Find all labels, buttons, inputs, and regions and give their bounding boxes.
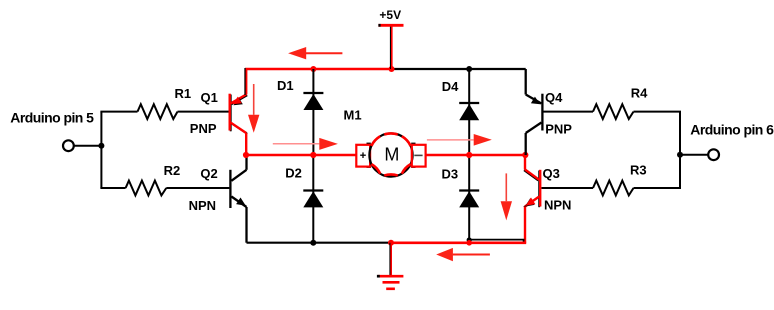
wire bottom rail red segment <box>391 241 526 244</box>
svg-text:Q2: Q2 <box>200 166 217 181</box>
transistor Q3 emitter arrow (NPN, points out) <box>526 198 536 206</box>
wire bottom rail original black right segment <box>469 240 523 242</box>
diode D4 <box>459 69 479 155</box>
transistor Q3 black underlay <box>524 170 539 207</box>
svg-text:M: M <box>384 144 399 164</box>
resistor R3 <box>593 181 634 196</box>
node D1 top junction <box>310 66 316 72</box>
power +5V symbol stem black fringe <box>390 26 392 69</box>
diode D3 <box>459 155 479 243</box>
wire top rail red segment <box>245 68 392 71</box>
motor M1 minus sign <box>414 154 422 156</box>
svg-text:D2: D2 <box>285 166 302 181</box>
node D4 top junction <box>466 66 472 72</box>
node Q1 collector junction <box>243 152 249 158</box>
svg-text:Q3: Q3 <box>543 166 560 181</box>
current arrow top (points left) <box>288 47 342 59</box>
svg-text:Arduino pin 6: Arduino pin 6 <box>690 121 774 137</box>
terminal pin6 circle <box>708 149 719 160</box>
node D3 bottom junction red <box>466 240 472 246</box>
node D3 bottom junction black <box>467 237 472 242</box>
power +5V bar left black tick <box>378 24 380 27</box>
transistor Q2 NPN <box>230 155 246 243</box>
svg-text:M1: M1 <box>344 108 362 123</box>
svg-text:D1: D1 <box>277 78 294 93</box>
transistor Q1 emitter arrow black underlay <box>234 98 243 106</box>
diode D2 <box>303 155 323 243</box>
node right bus junction dot <box>677 152 683 158</box>
current arrow motor left (points right) <box>273 138 338 150</box>
transistor Q3 NPN (red highlighted) <box>525 155 540 243</box>
motor M1 right terminal <box>412 145 426 167</box>
power +5V symbol <box>378 25 403 69</box>
resistor R1 <box>138 104 178 119</box>
wire R4 to right bus <box>634 111 682 113</box>
wire R1 row left <box>100 111 137 113</box>
transistor Q1 PNP (red highlighted) <box>230 69 247 155</box>
node Q3 collector junction <box>522 152 528 158</box>
node left bus junction dot <box>98 143 104 149</box>
wire top rail black segment <box>392 68 526 70</box>
wire right bus vertical <box>679 112 681 188</box>
wire motor node row right (red) <box>425 154 527 157</box>
node D3 top junction <box>466 152 472 158</box>
resistor R2 <box>126 181 167 196</box>
current arrow motor right (points right) <box>427 134 492 146</box>
diode D1 <box>303 69 323 155</box>
node ground tap junction <box>388 240 394 246</box>
motor M1 left terminal <box>356 145 370 167</box>
transistor Q1 emitter arrow (PNP, points into bar) <box>233 97 242 105</box>
node D2 top junction <box>310 152 316 158</box>
svg-text:R4: R4 <box>631 86 648 101</box>
svg-text:NPN: NPN <box>544 198 571 213</box>
wire R1 to Q1 base <box>178 111 229 113</box>
node +5V tap junction <box>389 66 395 72</box>
resistor R4 <box>593 104 634 119</box>
ground symbol stem black fringe <box>389 243 391 276</box>
svg-text:Q4: Q4 <box>545 90 563 105</box>
svg-text:PNP: PNP <box>545 122 572 137</box>
svg-text:D4: D4 <box>442 79 459 94</box>
terminal pin5 circle <box>63 140 74 151</box>
svg-text:R2: R2 <box>164 163 181 178</box>
transistor Q4 PNP <box>526 69 543 155</box>
wire top-left corner black fringe <box>244 68 246 95</box>
svg-text:D3: D3 <box>442 167 459 182</box>
motor M1 body black circle <box>369 133 412 176</box>
svg-text:R1: R1 <box>175 86 192 101</box>
current arrow Q1 down <box>248 84 259 133</box>
ground symbol <box>378 243 404 289</box>
transistor Q2 emitter arrow (NPN, points out) <box>236 198 246 206</box>
wire pin5 stub <box>75 145 102 147</box>
motor M1 plus sign <box>360 152 366 158</box>
node D2 bottom junction <box>310 240 316 246</box>
transistor Q1 black underlay <box>231 95 248 134</box>
wire R2 to Q2 base <box>166 187 229 189</box>
current arrow Q3 down <box>501 173 512 220</box>
current arrow bottom (points left) <box>436 248 490 261</box>
transistor Q3 emitter arrow black underlay <box>525 198 535 206</box>
svg-text:R3: R3 <box>630 163 647 178</box>
motor M1 left terminal black corner ticks <box>367 143 371 167</box>
svg-text:Arduino pin 5: Arduino pin 5 <box>10 109 94 125</box>
ground bar left black tick <box>377 275 380 278</box>
wire R2 row left <box>100 187 125 189</box>
transistor Q4 emitter arrow (PNP, points into bar) <box>531 97 540 105</box>
wire motor node row left (red) <box>246 154 357 157</box>
wire Q4 base to R4 <box>544 111 594 113</box>
svg-text:NPN: NPN <box>189 198 216 213</box>
motor M1 body red arcs <box>371 133 410 175</box>
svg-text:Q1: Q1 <box>201 90 218 105</box>
wire left bus vertical <box>100 112 102 188</box>
svg-text:+5V: +5V <box>379 8 401 22</box>
motor M1 right terminal black corner ticks <box>411 143 415 167</box>
wire pin6 stub <box>680 154 708 156</box>
wire Q3 base to R3 <box>542 187 594 189</box>
wire R3 to right bus <box>634 187 682 189</box>
wire bottom rail black segment <box>247 242 392 244</box>
svg-text:PNP: PNP <box>190 121 217 136</box>
